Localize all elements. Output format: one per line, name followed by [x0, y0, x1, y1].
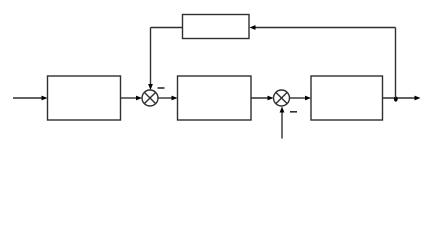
wire feedback vertical right — [395, 28, 397, 99]
arrowhead into G2 — [172, 96, 178, 101]
wire disturbance input bottom into S2 — [281, 111, 283, 139]
block G2 — [178, 76, 252, 120]
node output junction dot — [394, 96, 398, 101]
wire feedback down into S1 — [150, 28, 152, 86]
arrowhead into G3 — [305, 96, 311, 101]
wire G1 output to summing junction S1 — [121, 97, 137, 99]
wire S2 to block G3 — [290, 97, 306, 99]
arrowhead into S2 — [268, 96, 274, 101]
wire input to block G1 — [13, 97, 42, 99]
arrowhead output — [415, 96, 421, 101]
summing junction S2 — [274, 90, 290, 106]
block H feedback — [183, 15, 250, 39]
arrowhead into block H — [250, 25, 256, 30]
arrowhead into S2 bottom — [280, 107, 285, 113]
block G3 — [311, 76, 383, 120]
arrowhead into S1 top — [148, 84, 153, 90]
wire feedback top horizontal — [256, 27, 396, 29]
wire G3 output — [383, 97, 415, 99]
minus label at S2 — [290, 111, 297, 113]
minus label at S1 — [158, 87, 165, 89]
wire G2 output to summing junction S2 — [251, 97, 268, 99]
summing junction S1 — [142, 90, 158, 106]
block G1 — [48, 76, 121, 120]
wire S1 to block G2 — [158, 97, 172, 99]
wire H output left — [151, 27, 183, 29]
arrowhead into G1 — [42, 96, 48, 101]
arrowhead into S1 — [136, 96, 142, 101]
